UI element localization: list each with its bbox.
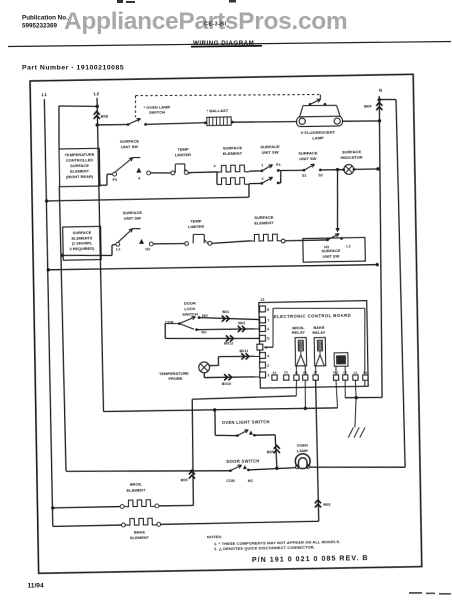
svg-text:Publication No.: Publication No. xyxy=(22,15,68,22)
svg-text:BROIL: BROIL xyxy=(130,482,143,487)
svg-text:B05: B05 xyxy=(267,450,275,454)
svg-text:ELEMENT: ELEMENT xyxy=(223,151,243,156)
svg-text:SURFACE: SURFACE xyxy=(342,149,362,154)
svg-text:LOCK: LOCK xyxy=(184,306,195,311)
svg-text:(RIGHT REAR): (RIGHT REAR) xyxy=(66,174,94,179)
svg-text:P1: P1 xyxy=(276,163,281,167)
svg-text:LIMITER: LIMITER xyxy=(175,152,191,157)
svg-text:B01: B01 xyxy=(222,310,230,314)
svg-text:N: N xyxy=(379,88,382,93)
svg-text:F FLUORESCENT: F FLUORESCENT xyxy=(301,130,336,136)
svg-text:L1: L1 xyxy=(42,92,48,97)
svg-text:1. * THESE COMPONENTS MAY NOT: 1. * THESE COMPONENTS MAY NOT APPEAR ON … xyxy=(214,540,341,546)
svg-text:SURFACE: SURFACE xyxy=(70,163,89,168)
svg-text:3: 3 xyxy=(267,354,269,358)
svg-text:11/94: 11/94 xyxy=(28,583,44,590)
svg-text:E4: E4 xyxy=(273,371,277,375)
svg-text:UNIT SW: UNIT SW xyxy=(121,144,138,149)
svg-text:SURFACE: SURFACE xyxy=(120,138,140,143)
svg-text:BAKE: BAKE xyxy=(134,529,146,534)
svg-text:8: 8 xyxy=(267,308,270,312)
svg-text:SURFACE: SURFACE xyxy=(223,145,243,150)
svg-text:UNIT SW: UNIT SW xyxy=(261,149,278,154)
svg-text:B09: B09 xyxy=(181,478,188,482)
svg-text:SURFACE: SURFACE xyxy=(73,231,92,235)
svg-text:B9: B9 xyxy=(363,371,367,375)
svg-text:2: 2 xyxy=(261,177,263,181)
svg-text:CE-3-BI: CE-3-BI xyxy=(204,22,226,28)
svg-text:(1 SHOWN,: (1 SHOWN, xyxy=(72,241,92,245)
svg-text:B09: B09 xyxy=(364,104,372,109)
svg-text:Part Number - 19100210085: Part Number - 19100210085 xyxy=(22,65,124,72)
svg-text:LAMP: LAMP xyxy=(312,135,324,140)
svg-text:SURFACE: SURFACE xyxy=(254,215,274,220)
svg-text:UNIT SW: UNIT SW xyxy=(124,216,141,221)
svg-text:B02: B02 xyxy=(238,321,245,325)
svg-text:SURFACE: SURFACE xyxy=(260,144,280,149)
svg-text:6: 6 xyxy=(267,327,269,331)
svg-text:P2: P2 xyxy=(112,178,117,182)
svg-text:S2: S2 xyxy=(318,173,323,177)
svg-text:* BALLAST: * BALLAST xyxy=(207,108,229,113)
svg-text:LIMITER: LIMITER xyxy=(188,224,204,229)
svg-text:B011: B011 xyxy=(239,349,249,353)
svg-text:ELEMENT: ELEMENT xyxy=(127,487,146,492)
svg-text:CON: CON xyxy=(226,479,235,483)
svg-text:ELEMENTS: ELEMENTS xyxy=(71,236,92,240)
svg-text:ELEMENT: ELEMENT xyxy=(130,535,149,540)
svg-text:NOTES:: NOTES: xyxy=(207,534,222,539)
svg-text:ELECTRONIC CONTROL BOARD: ELECTRONIC CONTROL BOARD xyxy=(274,313,351,319)
svg-text:S1: S1 xyxy=(302,174,307,178)
svg-text:LAMP: LAMP xyxy=(297,448,309,453)
svg-text:L2: L2 xyxy=(94,91,100,96)
svg-text:H2: H2 xyxy=(145,247,150,251)
svg-text:SURFACE: SURFACE xyxy=(123,210,143,215)
svg-text:4: 4 xyxy=(138,176,140,180)
svg-text:3 REQUIRED): 3 REQUIRED) xyxy=(70,247,96,251)
svg-text:TEMP: TEMP xyxy=(190,218,202,223)
svg-text:RELAY: RELAY xyxy=(312,330,325,335)
svg-text:PROBE: PROBE xyxy=(168,376,182,381)
svg-text:CONTROLLED: CONTROLLED xyxy=(66,157,94,162)
svg-text:RC: RC xyxy=(248,479,254,483)
svg-text:TEMP: TEMP xyxy=(177,146,189,151)
svg-text:7: 7 xyxy=(267,319,269,323)
svg-text:RELAY: RELAY xyxy=(292,330,305,335)
svg-text:4: 4 xyxy=(213,164,215,168)
svg-text:L2: L2 xyxy=(116,248,120,252)
svg-text:B03: B03 xyxy=(323,503,330,507)
svg-text:ELEMENT: ELEMENT xyxy=(70,168,89,173)
svg-text:C2: C2 xyxy=(353,371,357,375)
svg-text:WIRING DIAGRAM: WIRING DIAGRAM xyxy=(193,40,254,47)
svg-text:P/N 191 0 021 0 085 REV. B: P/N 191 0 021 0 085 REV. B xyxy=(252,554,369,564)
svg-text:ELEMENT: ELEMENT xyxy=(254,220,274,225)
svg-text:E5: E5 xyxy=(284,371,288,375)
svg-text:UNIT SW: UNIT SW xyxy=(299,156,316,161)
svg-text:J1: J1 xyxy=(260,297,265,302)
svg-text:L1: L1 xyxy=(346,244,350,248)
svg-text:DOOR SWITCH: DOOR SWITCH xyxy=(226,458,259,464)
svg-text:INDICATOR: INDICATOR xyxy=(340,155,362,160)
svg-text:5995232369: 5995232369 xyxy=(22,23,58,30)
svg-text:SWITCH: SWITCH xyxy=(149,109,165,114)
svg-text:1: 1 xyxy=(267,373,270,377)
svg-text:OVEN LIGHT SWITCH: OVEN LIGHT SWITCH xyxy=(222,419,270,425)
svg-text:1: 1 xyxy=(261,163,263,167)
svg-text:2. △ DENOTES QUICK DISCONNECT: 2. △ DENOTES QUICK DISCONNECT CONNECTOR. xyxy=(214,545,315,551)
svg-text:2: 2 xyxy=(267,364,269,368)
svg-text:SURFACE: SURFACE xyxy=(298,150,318,155)
svg-text:NC: NC xyxy=(201,330,207,334)
svg-text:UNIT SW: UNIT SW xyxy=(323,254,340,259)
svg-text:B08: B08 xyxy=(101,114,109,119)
svg-text:B010: B010 xyxy=(222,382,231,386)
svg-text:B012: B012 xyxy=(224,341,233,345)
svg-text:DOOR: DOOR xyxy=(184,300,196,305)
svg-text:SWITCH: SWITCH xyxy=(182,311,198,316)
svg-text:5: 5 xyxy=(267,337,270,341)
